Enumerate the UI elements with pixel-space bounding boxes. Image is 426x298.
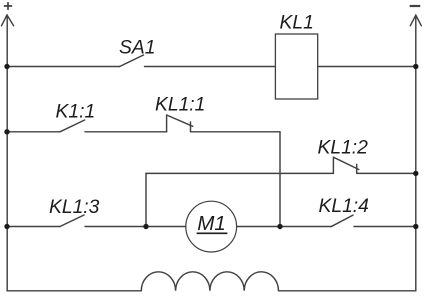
wire: row 3 KL1:3 to motor <box>85 226 186 228</box>
inductor winding L1 <box>141 272 278 291</box>
wire: row 1 middle segment <box>145 66 276 68</box>
svg-text:KL1:2: KL1:2 <box>318 138 369 159</box>
junction: right bus / row 1 <box>413 64 418 69</box>
wire: right bus vertical <box>415 16 417 291</box>
svg-text:KL1:4: KL1:4 <box>319 196 369 217</box>
wire: left bus vertical <box>6 16 8 291</box>
wire: row 2 left segment <box>7 131 60 133</box>
junction: branch vertical / row 3 <box>143 224 148 229</box>
relay coil KL1 <box>275 34 317 99</box>
junction: drop vertical / row 3 <box>277 224 282 229</box>
arrow up (negative terminal) <box>410 15 421 26</box>
junction: left bus / row 2 <box>4 129 9 134</box>
positive supply terminal + <box>4 2 12 10</box>
wire: row 1 right segment <box>318 66 416 68</box>
wire: vertical drop from row 2 to row 3 <box>279 132 281 227</box>
wire: row 3 right segment <box>354 226 416 228</box>
wire: row 3 left segment <box>7 226 60 228</box>
contact K1:1 blade <box>60 120 85 132</box>
svg-text:K1:1: K1:1 <box>56 101 96 122</box>
underline of label M1 <box>197 232 228 234</box>
svg-text:M1: M1 <box>197 212 226 235</box>
contact KL1:4 blade <box>331 215 353 227</box>
svg-text:SA1: SA1 <box>119 37 155 58</box>
switch SA1 contact blade <box>120 55 144 67</box>
negative supply terminal - <box>410 5 421 7</box>
junction: right bus / KL1:2 branch <box>413 171 418 176</box>
arrow up (positive terminal) <box>2 15 14 26</box>
junction: left bus / row 3 <box>4 224 9 229</box>
contact KL1:3 blade <box>60 215 84 227</box>
junction: right bus / row 3 <box>413 224 418 229</box>
svg-text:KL1: KL1 <box>280 12 314 33</box>
wire: KL1:2 branch horizontal left segment <box>146 172 333 174</box>
wire: bottom rail left segment <box>7 290 141 292</box>
wire: row 2 right segment <box>191 131 281 133</box>
wire: KL1:2 branch right segment <box>357 172 416 174</box>
svg-text:KL1:3: KL1:3 <box>49 197 100 218</box>
wire: row 2 middle segment <box>85 131 167 133</box>
motor M1 circle <box>186 201 237 252</box>
wire: row 1 left segment <box>7 66 120 68</box>
junction: left bus / row 1 <box>4 64 9 69</box>
wire: row 3 motor to KL1:4 <box>237 226 331 228</box>
wire: branch vertical (row 3 up to KL1:2 line) <box>145 173 147 226</box>
svg-text:KL1:1: KL1:1 <box>155 95 205 116</box>
wire: bottom rail right segment <box>279 290 416 292</box>
contact KL1:2 break contact <box>333 157 358 173</box>
contact KL1:1 break contact <box>167 115 193 132</box>
